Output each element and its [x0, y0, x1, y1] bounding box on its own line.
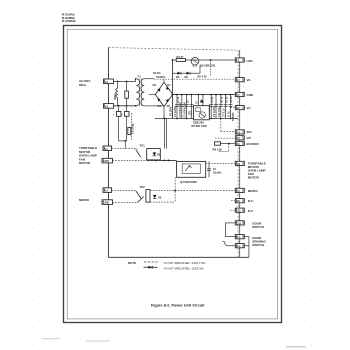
svg-text:: IF NOT SPECIFIED, 1/4W ± 5%: : IF NOT SPECIFIED, 1/4W ± 5% — [163, 261, 206, 265]
svg-text:C3 1000u/16V: C3 1000u/16V — [184, 102, 187, 118]
svg-text:C6 1u/50v: C6 1u/50v — [213, 105, 216, 117]
svg-text:B 1: B 1 — [237, 236, 241, 239]
svg-text:Z2 1u: Z2 1u — [177, 96, 180, 103]
svg-text:Z1 2u: Z1 2u — [211, 96, 214, 103]
svg-text:10u/50v: 10u/50v — [213, 171, 222, 174]
svg-text:VRS1: VRS1 — [114, 93, 117, 100]
svg-text:MOTOR: MOTOR — [248, 175, 260, 179]
svg-text:60Hz: 60Hz — [79, 83, 87, 87]
svg-text:N.C.: N.C. — [248, 209, 254, 213]
svg-text:RZ 880 1/2W: RZ 880 1/2W — [192, 124, 208, 128]
svg-text:R7 2k: R7 2k — [225, 96, 228, 103]
svg-text:C2 1000u/25V: C2 1000u/25V — [179, 102, 182, 118]
svg-text:N.1: N.1 — [104, 148, 108, 151]
svg-text:PB 3.3k: PB 3.3k — [213, 147, 223, 151]
svg-text:CN: CN — [237, 163, 241, 166]
svg-text:IC 1C: IC 1C — [227, 111, 230, 117]
svg-text:R-330AW: R-330AW — [62, 19, 75, 23]
svg-text:N.2: N.2 — [104, 190, 108, 193]
svg-text:R5 4.7k: R5 4.7k — [198, 75, 208, 79]
svg-text:TA8200: TA8200 — [232, 112, 235, 121]
svg-text:SWITCH: SWITCH — [252, 225, 264, 229]
svg-text:C10: C10 — [237, 222, 242, 225]
svg-text:NOTE: NOTE — [128, 261, 136, 265]
svg-text:MICRO: MICRO — [79, 198, 90, 202]
svg-text:C1 1u/50v: C1 1u/50v — [174, 105, 177, 117]
svg-text:R1 100k: R1 100k — [170, 106, 173, 116]
svg-text:GND: GND — [247, 93, 255, 97]
svg-text:D6: D6 — [185, 75, 189, 79]
svg-text:C7 0.1u: C7 0.1u — [223, 108, 226, 117]
svg-text:C9 1000p: C9 1000p — [131, 123, 134, 134]
svg-text:B 2: B 2 — [237, 245, 241, 248]
svg-text:C8 1u: C8 1u — [230, 96, 233, 103]
svg-text:RY1: RY1 — [140, 143, 146, 147]
svg-text:D4: D4 — [158, 104, 162, 108]
svg-text:Figure 8-2. Power Unit Circuit: Figure 8-2. Power Unit Circuit — [151, 303, 205, 308]
svg-text:COM: COM — [103, 160, 109, 163]
svg-text:: IF NOT SPECIFIED, 1SS270A: : IF NOT SPECIFIED, 1SS270A — [163, 266, 204, 270]
svg-text:Q2 2SB1238: Q2 2SB1238 — [200, 64, 216, 68]
svg-text:COM: COM — [103, 202, 109, 205]
svg-text:MOTOR: MOTOR — [79, 161, 91, 165]
svg-text:D1: D1 — [167, 83, 171, 87]
svg-text:2kF: 2kF — [247, 130, 252, 134]
svg-text:D3: D3 — [153, 83, 157, 87]
svg-text:D1-D4: D1-D4 — [153, 71, 161, 75]
svg-text:R6 1k: R6 1k — [221, 96, 224, 103]
svg-text:Q3 KRC243M: Q3 KRC243M — [180, 180, 196, 184]
svg-text:SWITCH: SWITCH — [252, 243, 264, 247]
svg-text:1N4001: 1N4001 — [156, 75, 166, 79]
svg-text:2SB1238: 2SB1238 — [193, 120, 204, 124]
svg-text:BUZZER: BUZZER — [247, 142, 260, 146]
svg-text:D5: D5 — [176, 75, 180, 79]
svg-text:MICRO: MICRO — [248, 189, 259, 193]
svg-text:LED: LED — [247, 59, 254, 63]
svg-text:RY2: RY2 — [140, 185, 146, 189]
svg-text:ZD1: ZD1 — [188, 110, 191, 115]
svg-text:N.C.: N.C. — [248, 199, 254, 203]
svg-text:C12 100u: C12 100u — [218, 106, 221, 117]
